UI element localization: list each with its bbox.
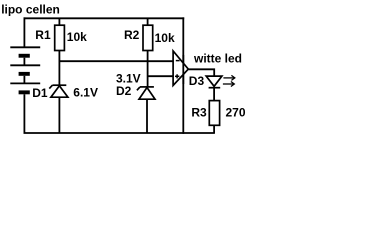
wire right rail through op-amp (redraw over triangle) — [182, 55, 184, 84]
svg-text:10k: 10k — [155, 31, 175, 45]
wire top rail to R1 — [58, 18, 60, 25]
wire top rail to R2 — [147, 18, 149, 25]
svg-text:D3: D3 — [189, 74, 205, 88]
wire R3 to bottom rail — [213, 125, 215, 133]
op-amp plus pin mark — [175, 74, 179, 78]
svg-text:R3: R3 — [191, 105, 207, 119]
op-amp U1 comparator — [173, 51, 188, 86]
wire node A to comparator minus input — [59, 60, 174, 62]
wire D3 to R3 — [213, 88, 215, 101]
battery cell 2 plate - — [19, 72, 30, 76]
battery cell 1 plate - — [19, 54, 30, 58]
battery cell 2 plate + — [10, 64, 40, 66]
op-amp minus pin mark — [176, 60, 180, 62]
wire top rail — [24, 17, 185, 19]
wire battery to bottom rail — [23, 94, 25, 133]
svg-text:270: 270 — [226, 105, 246, 119]
svg-text:R2: R2 — [124, 28, 140, 42]
svg-text:10k: 10k — [67, 30, 87, 44]
wire R2 to D2 — [147, 51, 149, 87]
svg-text:lipo cellen: lipo cellen — [1, 3, 60, 17]
wire node B to comparator plus input — [148, 75, 174, 77]
zener diode D2 3.1V — [137, 87, 155, 99]
wire R1 to D1 — [58, 51, 60, 86]
resistor R2 — [143, 25, 153, 50]
battery B1 lipo cells — [10, 47, 40, 133]
battery cell 1 plate + — [10, 46, 40, 48]
battery cell 3 plate + — [10, 82, 40, 84]
wire D1 to bottom rail — [58, 97, 60, 133]
zener diode D1 6.1V — [49, 85, 68, 97]
wire op-amp output to D3 — [188, 69, 214, 76]
resistor R1 — [55, 25, 65, 50]
resistor R3 — [209, 101, 219, 126]
battery cell 3 plate - — [19, 90, 30, 94]
wire cell2-cell3 — [23, 76, 25, 84]
wire right rail — [182, 17, 184, 133]
svg-text:D1: D1 — [32, 86, 48, 100]
svg-text:D2: D2 — [116, 84, 132, 98]
led D3 witte led — [206, 76, 222, 88]
wire cell1-cell2 — [23, 58, 25, 66]
svg-text:witte led: witte led — [193, 51, 242, 65]
wire D2 to bottom rail — [146, 99, 148, 133]
led light arrow 1 — [223, 75, 234, 80]
wire bottom rail — [24, 132, 215, 134]
svg-text:6.1V: 6.1V — [73, 86, 98, 100]
wire left rail to battery — [23, 17, 25, 47]
svg-text:R1: R1 — [35, 28, 51, 42]
led light arrow 2 — [223, 82, 234, 87]
